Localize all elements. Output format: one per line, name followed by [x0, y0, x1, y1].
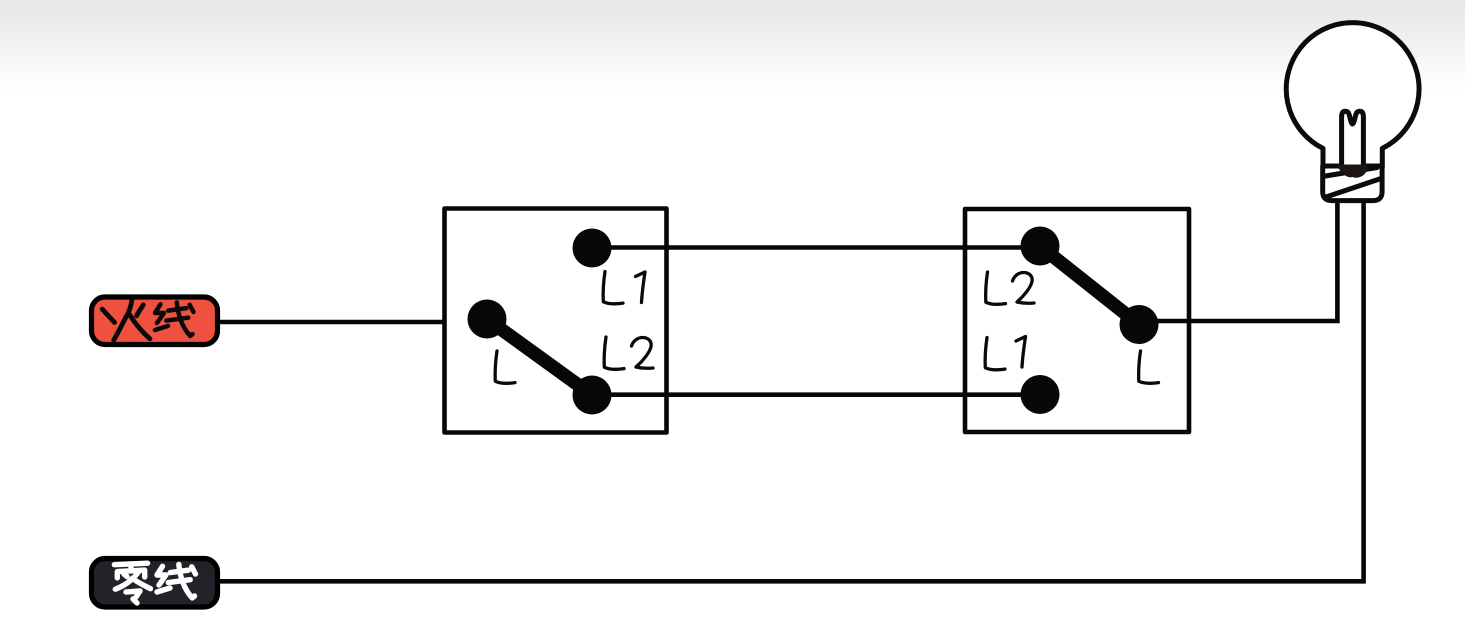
lamp screw cap — [1323, 166, 1382, 201]
terminal S1.L2 — [573, 376, 612, 415]
live label text 线 — [155, 302, 194, 336]
switch S2 box — [965, 209, 1189, 432]
lamp cap thread stripe 1 — [1326, 168, 1378, 177]
neutral label text 零 — [114, 563, 150, 603]
label S1 L — [495, 351, 515, 383]
wire neutral label to lamp — [219, 203, 1364, 581]
wire live label to switch S1 — [219, 320, 446, 325]
lamp cap solder blob — [1338, 165, 1368, 178]
label S2 L — [1139, 351, 1159, 383]
switch S1 lever L to L2 — [487, 319, 592, 395]
terminal S2.L1 — [1021, 375, 1060, 414]
lamp filament stem — [1342, 111, 1364, 165]
lamp bulb glass — [1286, 23, 1419, 167]
label S2 L1 — [985, 337, 1025, 370]
neutral label text 线 — [157, 564, 196, 598]
label S1 L1 — [603, 272, 645, 304]
terminal S1.L — [468, 300, 507, 339]
switch S1 box — [445, 209, 667, 433]
label S2 L2 — [986, 272, 1034, 304]
wire S1.L1 to S2.L2 — [592, 245, 1040, 250]
live label box 火线 — [92, 297, 218, 345]
switch S2 lever L2 to L — [1040, 246, 1139, 325]
label S1 L2 — [604, 337, 653, 369]
terminal S1.L1 — [573, 229, 612, 268]
wire S2.L to lamp — [1156, 203, 1337, 321]
wire S1.L2 to S2.L1 — [592, 392, 1040, 397]
neutral label box 零线 — [92, 559, 218, 608]
terminal S2.L — [1120, 305, 1159, 344]
terminal S2.L2 — [1021, 227, 1060, 266]
lamp cap thread stripe 2 — [1326, 179, 1380, 197]
live label text 火 — [102, 301, 150, 340]
